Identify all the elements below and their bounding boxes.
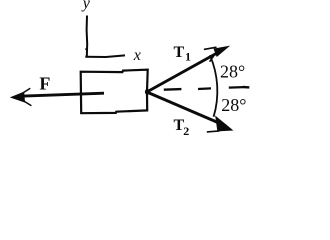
force F arrowhead upper barb [22,88,30,93]
force F arrowhead lower barb [23,101,31,106]
force F shaft [20,93,104,96]
svg-text:F: F [39,73,50,93]
svg-text:28°: 28° [221,95,246,115]
svg-text:T: T [174,44,185,61]
svg-text:2: 2 [183,124,189,138]
svg-text:1: 1 [185,50,191,64]
y axis [86,16,89,58]
T1 arrowhead core [214,46,229,56]
T2 arrowhead core [216,116,233,130]
T1 arrowhead upper barb [204,47,217,49]
svg-text:28°: 28° [220,61,245,81]
angle arc [210,55,217,117]
vertex junction blob [145,89,150,95]
block (rectangle) [81,70,148,114]
dashed centerline dash 2 [198,87,211,90]
svg-text:y: y [81,0,91,12]
dashed centerline dash 3 [229,86,244,89]
tension T2 shaft [147,92,226,126]
dash 3 right end blob [243,86,249,89]
force F arrowhead core [11,92,25,102]
x axis [85,55,125,57]
dashed centerline dash 1 [164,88,182,91]
T2 arrowhead bottom barb [207,131,220,132]
y axis tick nub [85,49,87,50]
svg-text:x: x [133,47,141,64]
T1 arrowhead lower barb [210,55,215,62]
tension T1 shaft [147,50,223,92]
